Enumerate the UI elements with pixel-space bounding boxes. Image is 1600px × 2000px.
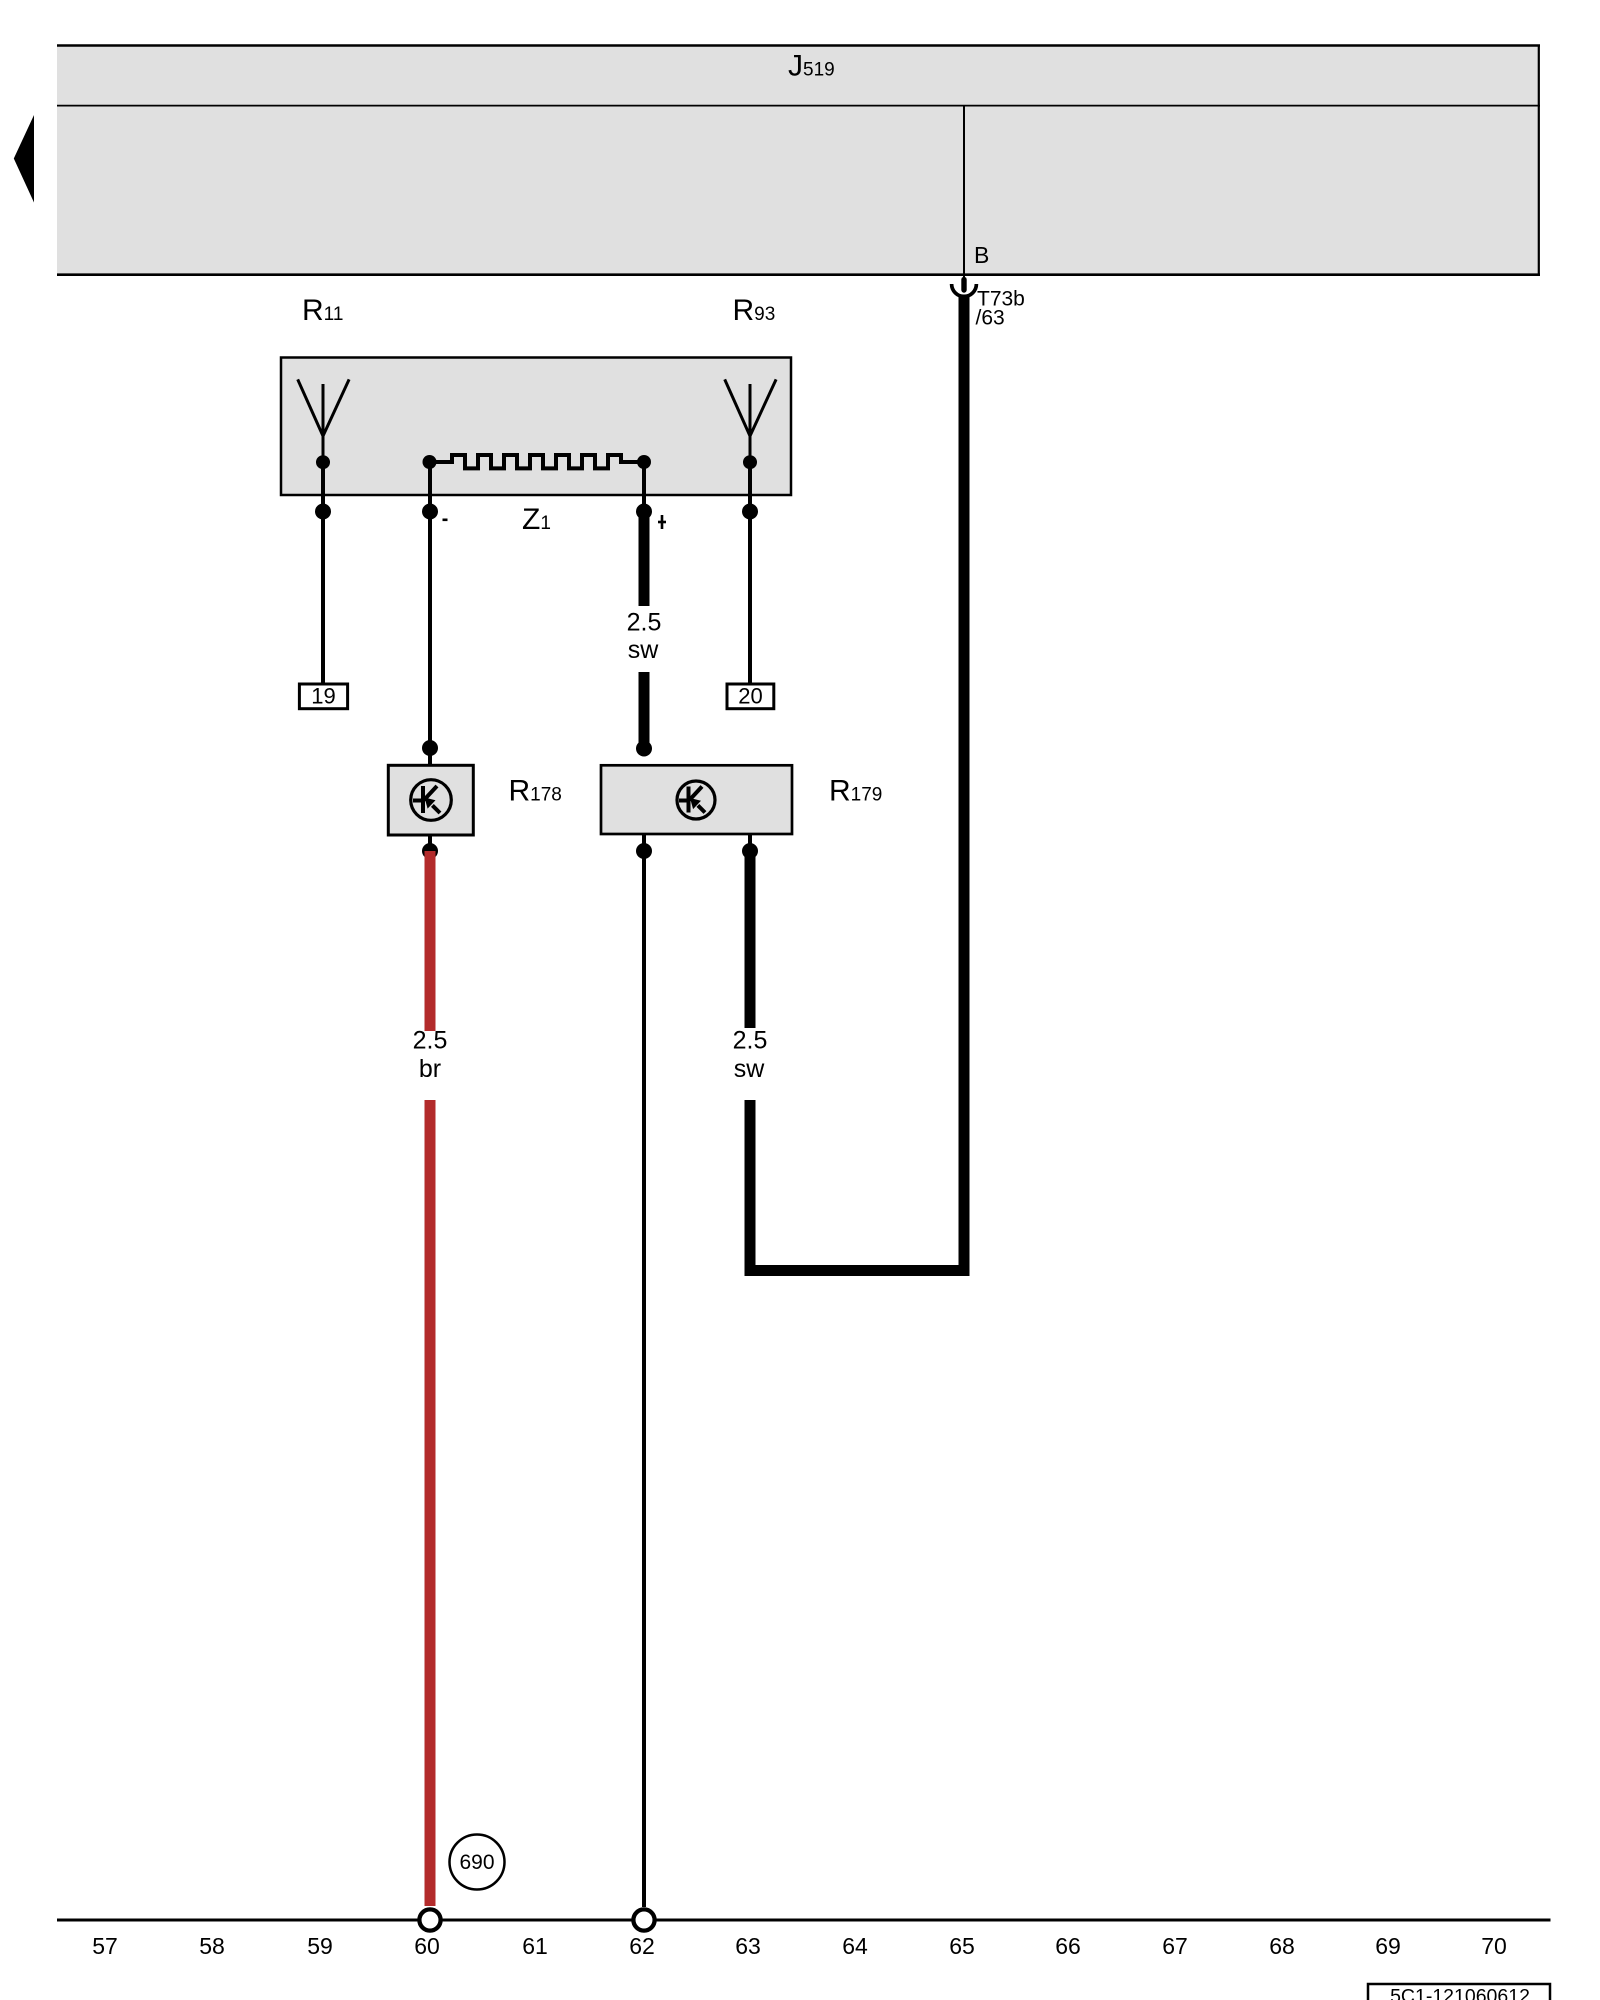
wire: thick 2.5 sw elbow to T73b wire: [750, 1100, 970, 1271]
svg-text:69: 69: [1375, 1933, 1401, 1959]
minus label: [443, 519, 448, 522]
svg-text:65: 65: [949, 1933, 975, 1959]
diagram number box: [1368, 1984, 1550, 2000]
svg-text:61: 61: [522, 1933, 548, 1959]
antenna R93 symbol: [725, 379, 776, 462]
svg-text:2.5: 2.5: [413, 1027, 448, 1055]
current track rail: [57, 1919, 1551, 1922]
svg-text:60: 60: [414, 1933, 440, 1959]
antenna R11 dot: [316, 455, 330, 469]
junction dot below R179 left: [636, 843, 652, 859]
stub below R179 left: [642, 834, 646, 851]
terminal 62 connector circle: [633, 1909, 654, 1930]
stub below R178: [428, 835, 432, 851]
junction dot below R179 right: [742, 843, 758, 859]
wire: R179 to terminal 62: [642, 851, 646, 1907]
terminal dot below box (plus): [636, 504, 652, 520]
svg-text:2.5: 2.5: [627, 609, 662, 637]
wire: 2.5 br red from R178 down (upper piece): [425, 851, 436, 1031]
svg-text:67: 67: [1162, 1933, 1188, 1959]
wire: R93 antenna to terminal 20: [748, 462, 752, 690]
track numbers 57-70: [92, 1933, 1507, 1959]
junction dot above R178: [422, 740, 438, 756]
svg-text:sw: sw: [628, 636, 660, 664]
svg-text:59: 59: [307, 1933, 333, 1959]
svg-text:63: 63: [735, 1933, 761, 1959]
terminal 20 box: [727, 684, 774, 709]
antenna R93 dot: [743, 455, 757, 469]
wire: J519 internal lead to pin B: [963, 106, 965, 279]
terminal dot below box (minus): [422, 504, 438, 520]
svg-text:70: 70: [1481, 1933, 1507, 1959]
wire: R11 antenna to terminal 19: [321, 462, 325, 690]
Z1 left dot: [423, 455, 437, 469]
svg-text:690: 690: [459, 1851, 494, 1874]
plus label: [658, 515, 666, 529]
svg-text:68: 68: [1269, 1933, 1295, 1959]
antenna R11 symbol: [298, 379, 349, 462]
junction dot below R178: [422, 843, 438, 859]
page edge arrow: [14, 115, 34, 203]
stub below R179 right: [748, 834, 752, 851]
svg-text:62: 62: [629, 1933, 655, 1959]
connector T73b/63 pin: [961, 280, 966, 291]
svg-text:2.5: 2.5: [733, 1027, 768, 1055]
wire: Z1 minus to R178: [428, 462, 432, 748]
svg-text:br: br: [419, 1055, 441, 1083]
junction dot above R179: [636, 741, 652, 757]
svg-text:B: B: [974, 242, 989, 268]
wire: thick black from T73b down to elbow: [959, 295, 970, 1276]
heater element Z1 resistor: [430, 455, 644, 468]
wire: thick 2.5 sw from R179 down (upper piece): [745, 851, 756, 1028]
svg-text:57: 57: [92, 1933, 118, 1959]
svg-text:66: 66: [1055, 1933, 1081, 1959]
suppression filter R179: [601, 765, 792, 834]
terminal dot below box (R93): [742, 504, 758, 520]
suppression filter R178: [388, 765, 473, 835]
svg-text:19: 19: [311, 684, 335, 709]
svg-text:sw: sw: [734, 1055, 766, 1083]
stub above R178: [428, 748, 432, 766]
wire: thick 2.5 sw from Z1 plus down to R179 (upper piece): [639, 511, 650, 606]
control module J519 body: [57, 45, 1540, 275]
terminal 60 connector circle: [419, 1909, 440, 1930]
terminal dot below box (R11): [315, 504, 331, 520]
svg-text:20: 20: [738, 684, 762, 709]
antenna unit box (R11 / R93): [281, 358, 791, 496]
connector T73b/63 socket arc: [952, 284, 977, 296]
wire: Z1 plus stub inside box: [642, 462, 646, 512]
wire: thick 2.5 sw lower piece to R179: [639, 672, 650, 748]
svg-text:64: 64: [842, 1933, 868, 1959]
svg-text:58: 58: [199, 1933, 225, 1959]
terminal 19 box: [299, 684, 347, 709]
svg-text:/63: /63: [976, 307, 1005, 330]
Z1 right dot: [637, 455, 651, 469]
svg-text:5C1-121060612: 5C1-121060612: [1390, 1986, 1530, 2000]
wire junction label 690: [450, 1835, 505, 1890]
wire: 2.5 br red lower piece down to terminal 60: [425, 1100, 436, 1906]
